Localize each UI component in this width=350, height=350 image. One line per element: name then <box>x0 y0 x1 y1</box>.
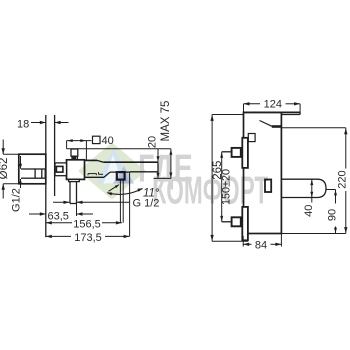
svg-text:156,5: 156,5 <box>73 218 101 230</box>
svg-text:MAX 75: MAX 75 <box>160 101 172 142</box>
svg-text:Ø62: Ø62 <box>0 158 10 180</box>
svg-text:КОМФОРТ: КОМФОРТ <box>153 168 269 212</box>
svg-text:40: 40 <box>303 205 315 217</box>
svg-text:173,5: 173,5 <box>74 232 102 244</box>
svg-text:G1/2: G1/2 <box>11 188 23 212</box>
svg-text:124: 124 <box>264 98 282 110</box>
svg-text:90: 90 <box>326 209 338 221</box>
svg-text:63,5: 63,5 <box>48 210 69 222</box>
svg-text:18: 18 <box>17 119 29 131</box>
svg-text:220: 220 <box>336 170 348 188</box>
svg-text:84: 84 <box>255 240 267 252</box>
